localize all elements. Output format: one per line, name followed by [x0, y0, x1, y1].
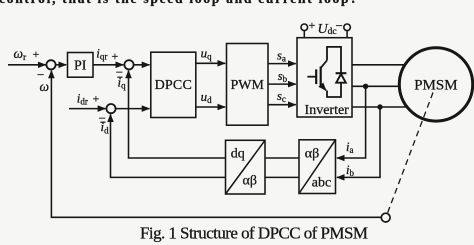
- wire s_a PWM to inverter: [268, 63, 296, 65]
- IGBT Q1 top rail: [327, 47, 341, 73]
- block DPCC: [151, 52, 196, 117]
- summing junction S3: [106, 104, 115, 113]
- node i_qr label: [96, 45, 107, 61]
- wire inverter to PMSM phase c: [352, 106, 408, 108]
- wire inverter to PMSM phase a: [352, 64, 407, 66]
- node i_dr label: [77, 90, 88, 106]
- diagonal of dq block: [226, 140, 266, 194]
- svg-text:idr: idr: [77, 90, 88, 106]
- IGBT Q1 bottom rail: [327, 83, 341, 97]
- IGBT Q1 body bar: [320, 67, 322, 88]
- svg-text:control, that is the speed loo: control, that is the speed loop and curr…: [0, 0, 357, 6]
- svg-text:iqr: iqr: [96, 45, 107, 61]
- DC link terminal positive: [301, 24, 308, 31]
- wire speed feedback: [51, 71, 381, 218]
- wire i_a sense drop: [337, 86, 366, 158]
- block alphabeta to abc: [299, 140, 336, 194]
- wire S2 to DPCC: [133, 64, 149, 66]
- node i_b label: [346, 163, 354, 178]
- svg-text:sc: sc: [277, 89, 286, 104]
- svg-text:DPCC: DPCC: [155, 78, 192, 93]
- node u_d label: [201, 89, 213, 105]
- figure caption: [140, 224, 368, 243]
- node U_dc label: [318, 22, 337, 37]
- svg-text:+: +: [112, 49, 119, 63]
- IGBT Q1 emitter slant with arrow: [321, 85, 326, 91]
- node u_q label: [201, 46, 213, 62]
- node omega_r label: [14, 46, 28, 63]
- svg-text:ω: ω: [40, 79, 50, 94]
- wire i_b sense drop: [337, 107, 380, 177]
- svg-text:ud: ud: [201, 89, 213, 105]
- svg-text:PWM: PWM: [230, 78, 264, 93]
- minus sign DC link: [336, 18, 343, 33]
- IGBT Q1 collector slant: [321, 60, 327, 68]
- wire between transform blocks upper: [265, 157, 299, 159]
- wire S3 to DPCC: [115, 108, 149, 110]
- wire PI to S2: [93, 64, 123, 66]
- svg-text:αβ: αβ: [243, 174, 257, 189]
- svg-text:ib: ib: [346, 163, 354, 178]
- wire S1 to PI: [55, 64, 66, 66]
- dashed line PMSM to position sensor: [387, 93, 433, 214]
- block dq to alphabeta: [226, 140, 266, 194]
- svg-text:PI: PI: [74, 59, 87, 74]
- minus sign at summing junction S2: [116, 65, 123, 80]
- IGBT Q1 gate bar: [315, 69, 317, 84]
- minus sign at summing junction S1: [37, 67, 44, 82]
- svg-text:Inverter: Inverter: [305, 103, 350, 118]
- svg-text:sb: sb: [278, 69, 288, 84]
- wire s_c PWM to inverter: [268, 104, 296, 106]
- junction dot phase c: [377, 104, 382, 109]
- wire inverter to PMSM phase b: [352, 85, 401, 87]
- block inverter: [297, 38, 352, 117]
- node omega feedback label: [40, 79, 50, 94]
- svg-text:αβ: αβ: [305, 147, 319, 162]
- summing junction S2: [124, 60, 133, 69]
- wire i_d_bar feedback to S3: [111, 114, 226, 177]
- wire omega_r input: [8, 64, 46, 66]
- svg-text:Fig. 1 Structure of DPCC of PM: Fig. 1 Structure of DPCC of PMSM: [140, 224, 368, 243]
- plus sign at summing junction S3: [93, 91, 100, 105]
- svg-text:abc: abc: [312, 175, 331, 190]
- clipped paragraph text at top: [0, 0, 357, 6]
- plus sign at summing junction S1: [33, 47, 40, 61]
- svg-text:−: −: [336, 18, 343, 33]
- block PI: [68, 53, 94, 78]
- svg-text:ia: ia: [346, 140, 353, 155]
- DC link terminal negative: [344, 24, 351, 31]
- diagonal of abc block: [299, 140, 336, 194]
- node i_d_bar label: [100, 119, 109, 135]
- svg-text:Udc: Udc: [318, 22, 337, 37]
- wire s_b PWM to inverter: [268, 83, 296, 85]
- diode D1 triangle: [336, 74, 346, 83]
- node s_b label: [278, 69, 288, 84]
- junction dot phase b: [363, 84, 368, 89]
- wire u_d DPCC to PWM: [196, 106, 225, 108]
- svg-text:+: +: [33, 47, 40, 61]
- wire u_q DPCC to PWM: [196, 62, 225, 64]
- summing junction S1: [46, 60, 55, 69]
- svg-text:ωr: ωr: [14, 46, 28, 63]
- svg-text:uq: uq: [201, 46, 213, 62]
- svg-text:+: +: [93, 91, 100, 105]
- wire i_q_bar feedback to S2: [129, 71, 226, 159]
- diode D1 cathode bar: [336, 72, 347, 74]
- node i_a label: [346, 140, 353, 155]
- block PWM: [227, 44, 269, 126]
- svg-text:PMSM: PMSM: [414, 77, 457, 93]
- node s_c label: [277, 89, 286, 104]
- motor PMSM: [399, 48, 472, 121]
- svg-text:sa: sa: [277, 49, 286, 64]
- wire between transform blocks lower: [265, 176, 299, 178]
- node i_q_bar label: [117, 75, 126, 91]
- node s_a label: [277, 49, 286, 64]
- wire i_dr input: [69, 108, 105, 110]
- svg-text:dq: dq: [231, 147, 245, 162]
- position sensor circle: [381, 213, 390, 222]
- wire positive terminal stem: [303, 31, 305, 38]
- minus sign at summing junction S3: [99, 110, 106, 125]
- wire negative terminal stem: [346, 31, 348, 38]
- plus sign DC link: [309, 18, 316, 32]
- svg-text:+: +: [309, 18, 316, 32]
- plus sign at summing junction S2: [112, 49, 119, 63]
- IGBT Q1 gate lead: [307, 76, 316, 78]
